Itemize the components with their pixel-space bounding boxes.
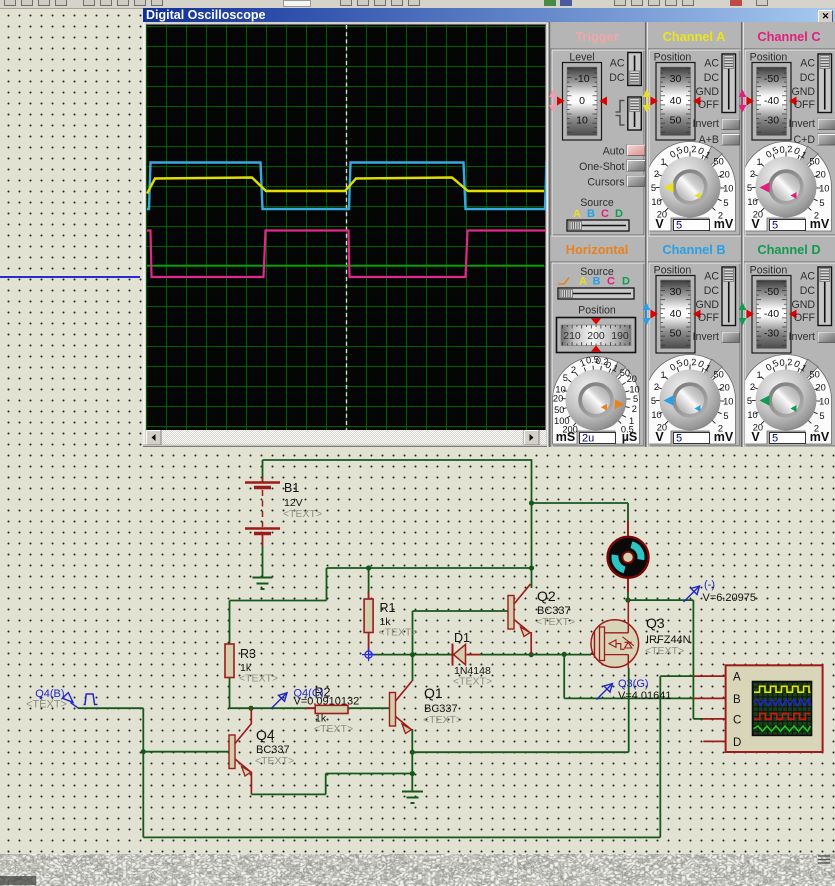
wire collector rail y568 — [327, 503, 532, 601]
svg-text:R3: R3 — [240, 647, 256, 661]
svg-text:V=4.01641: V=4.01641 — [618, 690, 672, 702]
resistor R2 — [305, 705, 348, 713]
node Q1 emitter junction — [410, 729, 415, 774]
svg-text:AC: AC — [704, 58, 719, 70]
wire motor bottom / drain — [628, 584, 693, 600]
pin D — [703, 737, 741, 749]
svg-text:B: B — [593, 276, 601, 288]
svg-text:10: 10 — [819, 396, 829, 406]
svg-text:<TEXT>: <TEXT> — [379, 627, 418, 639]
svg-text:<TEXT>: <TEXT> — [239, 673, 278, 685]
svg-text:mV: mV — [714, 217, 734, 231]
svg-text:Cursors: Cursors — [587, 177, 624, 189]
svg-text:C: C — [601, 208, 609, 220]
svg-text:0.2: 0.2 — [779, 144, 793, 155]
svg-text:5: 5 — [819, 198, 824, 208]
svg-text:GND: GND — [791, 299, 815, 311]
svg-text:Q3: Q3 — [646, 615, 665, 631]
svg-text:1: 1 — [661, 157, 666, 167]
Digital Oscilloscope window — [143, 8, 835, 447]
voltage probe Q4(C) — [271, 688, 359, 709]
svg-text:V=6.20975: V=6.20975 — [703, 592, 757, 604]
svg-text:Q3(G): Q3(G) — [618, 678, 649, 690]
svg-text:Channel C: Channel C — [757, 29, 820, 44]
svg-text:50: 50 — [810, 157, 820, 167]
svg-text:Horizontal: Horizontal — [566, 242, 629, 257]
svg-text:D: D — [622, 276, 630, 288]
svg-text:mV: mV — [810, 430, 830, 444]
svg-text:30: 30 — [670, 286, 682, 298]
svg-text:2: 2 — [750, 382, 755, 392]
wire R3 top feed — [230, 601, 327, 645]
svg-text:50: 50 — [670, 328, 682, 340]
ground (battery) — [253, 578, 273, 590]
svg-text:V: V — [751, 217, 760, 231]
wire Q2 base — [413, 610, 510, 612]
svg-text:<TEXT>: <TEXT> — [645, 645, 684, 657]
svg-text:40: 40 — [670, 95, 682, 107]
voltage probe Q3(G) — [597, 678, 672, 702]
oscilloscope component (mini) — [726, 665, 823, 752]
svg-text:mS: mS — [556, 430, 575, 444]
svg-text:0.2: 0.2 — [683, 144, 697, 155]
svg-text:1: 1 — [757, 370, 762, 380]
svg-text:One-Shot: One-Shot — [579, 161, 624, 173]
node Q1 collector junction — [410, 611, 415, 681]
svg-text:0: 0 — [579, 95, 585, 107]
wire B1 top rail — [263, 460, 532, 478]
svg-text:5: 5 — [651, 396, 656, 406]
svg-text:µS: µS — [622, 430, 638, 444]
svg-text:Invert: Invert — [789, 118, 816, 130]
svg-text:-50: -50 — [764, 73, 779, 85]
svg-text:50: 50 — [554, 405, 564, 415]
svg-text:A: A — [579, 276, 587, 288]
node VCC junction — [529, 500, 534, 505]
svg-text:Channel B: Channel B — [662, 242, 725, 257]
svg-text:-10: -10 — [574, 73, 589, 85]
svg-text:OFF: OFF — [794, 99, 816, 111]
svg-text:10: 10 — [723, 396, 733, 406]
svg-text:C: C — [733, 714, 741, 726]
voltage probe (-) — [684, 579, 757, 604]
node R1 top junction — [366, 565, 371, 599]
svg-text:GND: GND — [695, 299, 719, 311]
svg-text:DC: DC — [609, 72, 625, 84]
svg-text:DC: DC — [704, 72, 720, 84]
svg-text:5: 5 — [723, 198, 728, 208]
control panel — [547, 22, 835, 447]
svg-text:50: 50 — [714, 157, 724, 167]
svg-text:5: 5 — [772, 220, 778, 232]
svg-text:5: 5 — [651, 183, 656, 193]
svg-text:10: 10 — [723, 183, 733, 193]
svg-text:Invert: Invert — [693, 331, 720, 343]
wire bottom rail — [143, 676, 660, 837]
svg-text:40: 40 — [670, 308, 682, 320]
svg-text:D: D — [615, 208, 623, 220]
wire D1 net — [369, 654, 591, 656]
svg-text:Position: Position — [750, 52, 788, 64]
svg-text:50: 50 — [714, 370, 724, 380]
svg-text:5: 5 — [676, 220, 682, 232]
svg-text:B: B — [587, 208, 595, 220]
svg-text:A: A — [573, 208, 581, 220]
svg-text:2: 2 — [750, 169, 755, 179]
svg-text:Digital Oscilloscope: Digital Oscilloscope — [146, 8, 266, 22]
node Q2 collector junction — [529, 565, 534, 570]
svg-text:V: V — [751, 430, 760, 444]
svg-text:V=0.0910132: V=0.0910132 — [294, 696, 360, 708]
svg-text:200: 200 — [587, 330, 605, 342]
pin A — [693, 672, 741, 684]
svg-text:10: 10 — [747, 197, 757, 207]
svg-text:10: 10 — [747, 410, 757, 420]
diode D1 1N4148 — [453, 644, 480, 666]
svg-text:<TEXT>: <TEXT> — [26, 699, 67, 711]
wire scope C feed — [693, 600, 702, 719]
pin B — [693, 694, 741, 706]
svg-text:A: A — [733, 672, 741, 684]
svg-text:20: 20 — [720, 170, 730, 180]
svg-text:-50: -50 — [764, 286, 779, 298]
svg-text:Q1: Q1 — [424, 685, 443, 701]
svg-text:D: D — [733, 737, 741, 749]
svg-text:GND: GND — [791, 86, 815, 98]
svg-text:5: 5 — [747, 396, 752, 406]
svg-text:<TEXT>: <TEXT> — [423, 714, 462, 726]
transistor Q2 BC337 — [508, 584, 531, 637]
svg-text:20: 20 — [816, 383, 826, 393]
svg-text:5: 5 — [819, 411, 824, 421]
svg-text:B1: B1 — [284, 481, 299, 495]
wire Q4 emitter — [250, 772, 252, 794]
svg-text:C: C — [607, 276, 615, 288]
svg-text:2: 2 — [654, 169, 659, 179]
svg-text:5: 5 — [633, 394, 638, 404]
svg-text:<TEXT>: <TEXT> — [536, 616, 575, 628]
scrollbar — [146, 430, 546, 445]
svg-text:20: 20 — [816, 170, 826, 180]
transistor Q4 BC337 — [229, 724, 252, 777]
svg-text:5: 5 — [772, 433, 778, 445]
svg-text:2u: 2u — [582, 433, 594, 445]
MOSFET Q3 IRFZ44N — [591, 620, 639, 668]
svg-text:Q2: Q2 — [537, 588, 556, 604]
svg-text:5: 5 — [563, 373, 568, 383]
svg-text:V: V — [655, 217, 664, 231]
svg-text:Trigger: Trigger — [575, 29, 618, 44]
svg-text:OFF: OFF — [698, 312, 720, 324]
svg-text:B: B — [733, 694, 741, 706]
wire gate rail — [564, 654, 693, 698]
svg-text:DC: DC — [704, 285, 720, 297]
svg-text:Level: Level — [569, 52, 594, 64]
svg-text:<TEXT>: <TEXT> — [453, 676, 492, 688]
svg-text:190: 190 — [611, 330, 629, 342]
svg-text:<TEXT>: <TEXT> — [283, 508, 322, 520]
node Q4 base junction — [141, 749, 146, 754]
svg-text:<TEXT>: <TEXT> — [314, 723, 353, 735]
svg-text:5: 5 — [723, 411, 728, 421]
transistor Q1 BC337 — [390, 681, 413, 734]
svg-text:AC: AC — [800, 58, 815, 70]
svg-text:<TEXT>: <TEXT> — [255, 755, 294, 767]
svg-text:D1: D1 — [454, 631, 470, 645]
svg-text:GND: GND — [695, 86, 719, 98]
svg-text:AC: AC — [800, 271, 815, 283]
battery B1 — [245, 478, 280, 577]
generator probe Q4(B) — [26, 688, 98, 711]
wire scope A feed — [660, 675, 693, 677]
svg-text:Position: Position — [578, 305, 616, 317]
node Q4 collector junction — [248, 706, 253, 724]
svg-text:10: 10 — [819, 183, 829, 193]
svg-text:-30: -30 — [764, 115, 779, 127]
svg-text:mV: mV — [714, 430, 734, 444]
scope screen — [146, 24, 546, 431]
node ground junction — [410, 771, 415, 791]
wire base rail y708 — [230, 677, 390, 708]
wire motor top feed — [532, 503, 629, 530]
svg-text:2: 2 — [571, 365, 576, 375]
node gate junction — [562, 652, 567, 657]
svg-text:Position: Position — [654, 265, 692, 277]
svg-text:OFF: OFF — [794, 312, 816, 324]
svg-text:20: 20 — [627, 374, 637, 384]
svg-text:AC: AC — [704, 271, 719, 283]
svg-text:DC: DC — [800, 72, 816, 84]
svg-text:210: 210 — [563, 330, 581, 342]
svg-text:R1: R1 — [380, 601, 396, 615]
svg-text:2: 2 — [632, 404, 637, 414]
wire probe Q4(B) feed — [78, 708, 143, 837]
svg-text:0.2: 0.2 — [683, 357, 697, 368]
svg-text:Auto: Auto — [603, 146, 625, 158]
svg-text:2: 2 — [654, 382, 659, 392]
svg-text:5: 5 — [747, 183, 752, 193]
svg-text:0.2: 0.2 — [779, 357, 793, 368]
wire Q4 emitter return — [251, 774, 412, 795]
pin C — [702, 714, 741, 726]
node Q2 emitter junction — [529, 632, 534, 657]
motor — [608, 521, 649, 592]
svg-text:V: V — [655, 430, 664, 444]
svg-text:OFF: OFF — [698, 99, 720, 111]
svg-text:Position: Position — [654, 52, 692, 64]
wire Q4 base — [143, 751, 229, 753]
svg-text:Invert: Invert — [789, 331, 816, 343]
svg-text:Q4: Q4 — [256, 727, 275, 743]
svg-text:10: 10 — [651, 197, 661, 207]
origin marker (blue) — [362, 648, 375, 661]
svg-text:Position: Position — [750, 265, 788, 277]
svg-text:mV: mV — [810, 217, 830, 231]
node drain junction — [625, 598, 630, 621]
svg-text:10: 10 — [576, 115, 588, 127]
svg-text:Invert: Invert — [693, 118, 720, 130]
svg-text:30: 30 — [670, 73, 682, 85]
svg-text:50: 50 — [810, 370, 820, 380]
wire (blue, left edge) — [0, 276, 140, 278]
svg-text:-30: -30 — [764, 328, 779, 340]
wire battery top feed — [531, 459, 533, 503]
svg-text:-40: -40 — [764, 308, 779, 320]
svg-text:10: 10 — [651, 410, 661, 420]
svg-text:DC: DC — [800, 285, 816, 297]
svg-text:5: 5 — [676, 433, 682, 445]
resistor R1 — [364, 591, 373, 651]
svg-text:1: 1 — [757, 157, 762, 167]
bottom noise strip — [0, 854, 835, 886]
svg-text:20: 20 — [720, 383, 730, 393]
svg-text:1: 1 — [661, 370, 666, 380]
svg-text:20: 20 — [553, 394, 563, 404]
wire source rail y752 — [412, 668, 628, 752]
resistor R3 — [225, 644, 234, 678]
svg-text:50: 50 — [670, 115, 682, 127]
svg-text:AC: AC — [610, 58, 625, 70]
svg-text:(-): (-) — [704, 579, 715, 591]
svg-text:-40: -40 — [764, 95, 779, 107]
svg-text:Channel D: Channel D — [757, 242, 820, 257]
svg-text:Channel A: Channel A — [663, 29, 726, 44]
ground (emitters) — [402, 792, 423, 804]
